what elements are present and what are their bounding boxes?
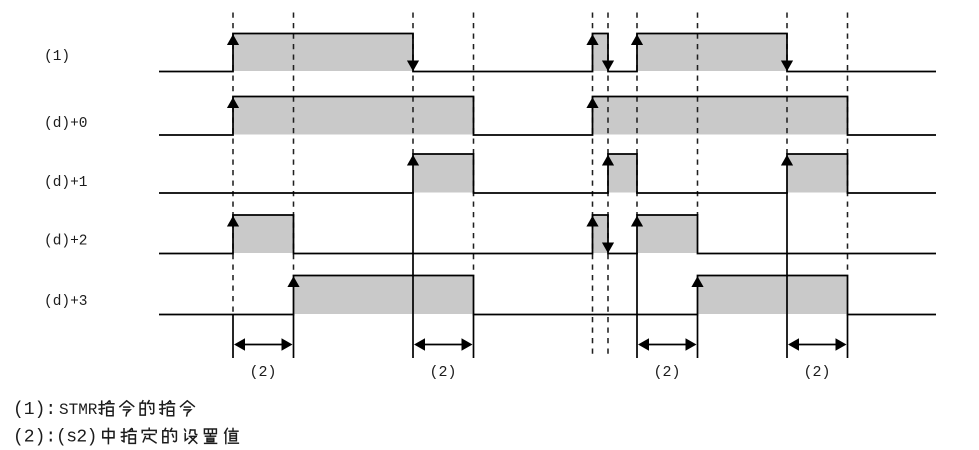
up arrow (1) at t=a bbox=[227, 34, 239, 45]
legend CJK: 指 bbox=[99, 401, 114, 416]
legend CJK: 设 bbox=[185, 429, 197, 443]
legend CJK: 中 bbox=[103, 428, 114, 443]
svg-text:(d)+3: (d)+3 bbox=[44, 294, 88, 310]
down arrow (d)+2 at t=f bbox=[602, 243, 614, 254]
up arrow (d)+2 at t=e bbox=[586, 216, 598, 227]
dashed line at t=i (x=787) bbox=[786, 13, 788, 155]
up arrow (d)+1 at t=c bbox=[407, 155, 419, 166]
svg-text:(2):: (2): bbox=[13, 428, 56, 448]
down arrow (1) at t=f bbox=[602, 61, 614, 72]
gray pulse fills row (d)+0 bbox=[233, 97, 848, 135]
gray pulse fills row (d)+3 bbox=[294, 276, 848, 314]
waveform (d)+3 line bbox=[159, 276, 936, 315]
svg-text:(d)+1: (d)+1 bbox=[44, 175, 88, 191]
double arrow span i-j bbox=[794, 344, 841, 346]
svg-text:(d)+0: (d)+0 bbox=[44, 116, 88, 132]
extension of (d)+1 rising edge at t=i down through rows bbox=[786, 192, 788, 358]
up arrow (d)+1 at t=f bbox=[602, 155, 614, 166]
extension of (d)+3 rising edge at t=b bbox=[293, 315, 295, 359]
legend CJK: 指 bbox=[121, 429, 136, 444]
dashed line at t=f (x=608) bbox=[607, 13, 609, 358]
svg-text:(1): (1) bbox=[44, 49, 70, 65]
legend CJK: 令 bbox=[120, 401, 134, 416]
svg-text:(2): (2) bbox=[429, 364, 456, 381]
dashed line at t=c (x=413) bbox=[412, 13, 414, 155]
legend CJK: 值 bbox=[225, 428, 239, 443]
up arrow (d)+3 at t=h bbox=[691, 276, 703, 287]
up arrow (d)+1 at t=i bbox=[781, 155, 793, 166]
up arrow (d)+2 at t=a bbox=[227, 216, 239, 227]
waveform (d)+2 line bbox=[159, 215, 936, 254]
svg-text:(d)+2: (d)+2 bbox=[44, 234, 88, 250]
extension below (d)+3 rising edge at t=h bbox=[697, 315, 699, 359]
waveform (1) line bbox=[159, 34, 936, 72]
svg-text:(1):: (1): bbox=[13, 400, 56, 420]
legend CJK: 定 bbox=[142, 428, 156, 443]
legend CJK: 令 bbox=[181, 401, 195, 416]
dashed line at t=e (x=592.5) bbox=[592, 13, 594, 358]
legend CJK: 的 bbox=[140, 401, 154, 415]
up arrow (1) at t=g bbox=[631, 34, 643, 45]
legend CJK: 置 bbox=[204, 429, 216, 443]
legend CJK: 指 bbox=[160, 401, 175, 416]
extension below (d)+3 falling edge at t=j bbox=[847, 315, 849, 359]
svg-text:(2): (2) bbox=[249, 364, 276, 381]
extension below (d)+3 falling edge at t=d bbox=[473, 315, 475, 359]
dashed line at t=g (x=637) bbox=[636, 13, 638, 216]
dashed line at t=b (x=293.5) bbox=[293, 13, 295, 276]
svg-text:(2): (2) bbox=[803, 364, 830, 381]
svg-text:(2): (2) bbox=[653, 364, 680, 381]
gray pulse fills row (1) bbox=[233, 34, 787, 71]
extension of (d)+2 rising edge at t=g bbox=[636, 253, 638, 358]
legend CJK: 的 bbox=[163, 428, 177, 442]
up arrow (d)+0 at t=e bbox=[586, 97, 598, 108]
double arrow span g-h bbox=[644, 344, 691, 346]
gray pulse fills row (d)+2 bbox=[233, 216, 698, 254]
waveform (d)+0 line bbox=[159, 97, 936, 136]
dashed line at t=h (x=697.5) bbox=[697, 13, 699, 216]
svg-text:(s2): (s2) bbox=[56, 428, 97, 448]
up arrow (d)+3 at t=b bbox=[287, 276, 299, 287]
down arrow (1) at t=i bbox=[781, 61, 793, 72]
dashed line at t=j (x=847.5) bbox=[847, 13, 849, 276]
up arrow (1) at t=e bbox=[586, 34, 598, 45]
double arrow span c-d bbox=[420, 344, 467, 346]
extension of (d)+1 rising edge at t=c down through rows bbox=[412, 192, 414, 358]
up arrow (d)+2 at t=g bbox=[631, 216, 643, 227]
dashed line at t=a (x=233) bbox=[232, 13, 234, 315]
up arrow (d)+0 at t=a bbox=[227, 97, 239, 108]
gray pulse fills row (d)+1 bbox=[413, 155, 848, 193]
double arrow span a-b bbox=[240, 344, 287, 346]
waveform (d)+1 line bbox=[159, 154, 936, 193]
down arrow (1) at t=c bbox=[407, 61, 419, 72]
extension below (d)+3 baseline at t=a bbox=[232, 315, 234, 359]
dashed line at t=d (x=473.5) bbox=[473, 13, 475, 276]
svg-text:STMR: STMR bbox=[59, 401, 98, 419]
